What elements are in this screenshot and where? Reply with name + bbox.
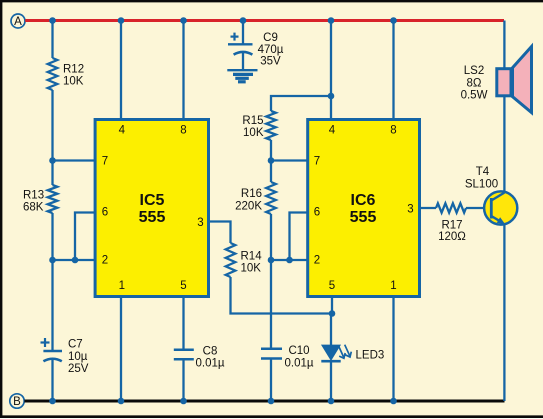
speaker LS2 (461, 47, 532, 113)
svg-text:470µ: 470µ (258, 44, 284, 56)
svg-text:8: 8 (180, 125, 186, 137)
wire (271, 259, 307, 261)
resistor R15 (242, 111, 275, 140)
svg-text:C9: C9 (263, 32, 278, 44)
svg-text:3: 3 (407, 204, 413, 216)
capacitor C10 (261, 345, 314, 370)
junction (72, 257, 79, 264)
wire (270, 214, 272, 260)
svg-text:6: 6 (314, 207, 320, 219)
svg-text:LS2: LS2 (464, 65, 484, 77)
svg-text:68K: 68K (23, 202, 44, 214)
svg-text:6: 6 (102, 207, 108, 219)
wire (242, 21, 244, 46)
wire (270, 140, 272, 182)
wire (271, 96, 331, 111)
wire (51, 90, 53, 185)
LED LED3 (321, 345, 384, 362)
capacitor C7 (41, 338, 89, 375)
wire (242, 53, 244, 70)
node B (10, 394, 24, 408)
wire (270, 260, 272, 349)
wire (182, 21, 184, 120)
svg-text:R16: R16 (241, 188, 262, 200)
svg-text:R14: R14 (241, 251, 263, 263)
wire (209, 222, 231, 244)
wire (392, 21, 394, 120)
junction (329, 310, 336, 317)
svg-text:C7: C7 (68, 339, 83, 351)
svg-text:4: 4 (329, 125, 336, 137)
svg-text:8Ω: 8Ω (467, 78, 482, 90)
junction (268, 398, 275, 405)
junction (328, 398, 335, 405)
wire (51, 21, 53, 59)
wire (120, 295, 122, 401)
svg-text:R17: R17 (441, 219, 462, 231)
IC IC5 (555 timer) (95, 120, 208, 297)
svg-text:1: 1 (390, 280, 396, 292)
svg-text:555: 555 (350, 209, 377, 226)
svg-text:8: 8 (390, 125, 396, 137)
wire (331, 295, 333, 314)
ground rail (24, 400, 504, 403)
junction (49, 398, 56, 405)
wire (392, 295, 394, 401)
svg-text:7: 7 (314, 156, 320, 168)
resistor R14 (226, 243, 263, 277)
svg-text:10µ: 10µ (68, 351, 88, 363)
node A (11, 14, 25, 28)
wire (271, 159, 307, 161)
junction (268, 157, 275, 164)
wire (182, 359, 184, 401)
junction (390, 398, 397, 405)
svg-text:1: 1 (119, 280, 125, 292)
junction (328, 93, 335, 100)
svg-text:IC6: IC6 (351, 192, 376, 209)
svg-text:120Ω: 120Ω (438, 231, 466, 243)
svg-text:0.01µ: 0.01µ (195, 358, 224, 370)
svg-text:IC5: IC5 (140, 192, 165, 209)
svg-text:LED3: LED3 (356, 350, 385, 362)
svg-text:T4: T4 (476, 166, 490, 178)
wire (330, 314, 332, 347)
svg-text:10K: 10K (63, 75, 84, 87)
svg-text:B: B (13, 396, 21, 408)
wire (53, 159, 96, 161)
wire (503, 224, 505, 402)
svg-text:10K: 10K (241, 263, 262, 275)
junction (49, 157, 56, 164)
svg-text:2: 2 (102, 255, 108, 267)
junction (118, 17, 125, 24)
capacitor C8 (174, 346, 225, 370)
svg-text:10K: 10K (243, 127, 264, 139)
IC IC6 (555 timer) (308, 120, 420, 297)
ground (227, 70, 257, 82)
resistor R16 (235, 182, 276, 214)
junction (180, 17, 187, 24)
transistor T4 (465, 166, 517, 225)
svg-text:35V: 35V (260, 56, 281, 68)
svg-text:SL100: SL100 (465, 179, 498, 191)
junction (180, 398, 187, 405)
wire (53, 259, 96, 261)
svg-text:3: 3 (197, 217, 203, 229)
junction (49, 17, 56, 24)
wire (182, 295, 184, 349)
junction (390, 17, 397, 24)
wire (231, 277, 333, 314)
junction (328, 17, 335, 24)
svg-text:4: 4 (119, 125, 126, 137)
wire (270, 359, 272, 402)
svg-text:25V: 25V (68, 363, 89, 375)
resistor R13 (23, 185, 57, 214)
junction (49, 257, 56, 264)
svg-text:7: 7 (102, 156, 108, 168)
svg-text:C8: C8 (203, 346, 218, 358)
svg-text:2: 2 (314, 255, 320, 267)
svg-text:R12: R12 (63, 64, 84, 76)
svg-text:C10: C10 (288, 345, 309, 357)
wire (75, 213, 95, 261)
junction (268, 257, 275, 264)
junction (286, 257, 293, 264)
wire (419, 207, 436, 209)
svg-text:0.01µ: 0.01µ (284, 358, 313, 370)
wire (503, 21, 505, 194)
svg-text:A: A (14, 16, 22, 28)
resistor R17 (436, 203, 466, 243)
wire (466, 207, 490, 209)
wire (330, 21, 332, 120)
junction (240, 17, 247, 24)
wire (330, 361, 332, 401)
wire (51, 213, 53, 350)
svg-text:5: 5 (329, 280, 335, 292)
svg-text:R13: R13 (23, 190, 44, 202)
resistor R12 (48, 58, 84, 90)
wire (290, 213, 308, 261)
wire (51, 360, 53, 401)
junction (118, 398, 125, 405)
capacitor C9 (228, 32, 284, 68)
svg-text:5: 5 (180, 280, 186, 292)
svg-text:555: 555 (139, 209, 166, 226)
wire (120, 21, 122, 120)
positive supply rail (25, 19, 504, 22)
svg-text:0.5W: 0.5W (461, 90, 488, 102)
svg-text:R15: R15 (242, 115, 263, 127)
svg-text:220K: 220K (235, 200, 262, 212)
